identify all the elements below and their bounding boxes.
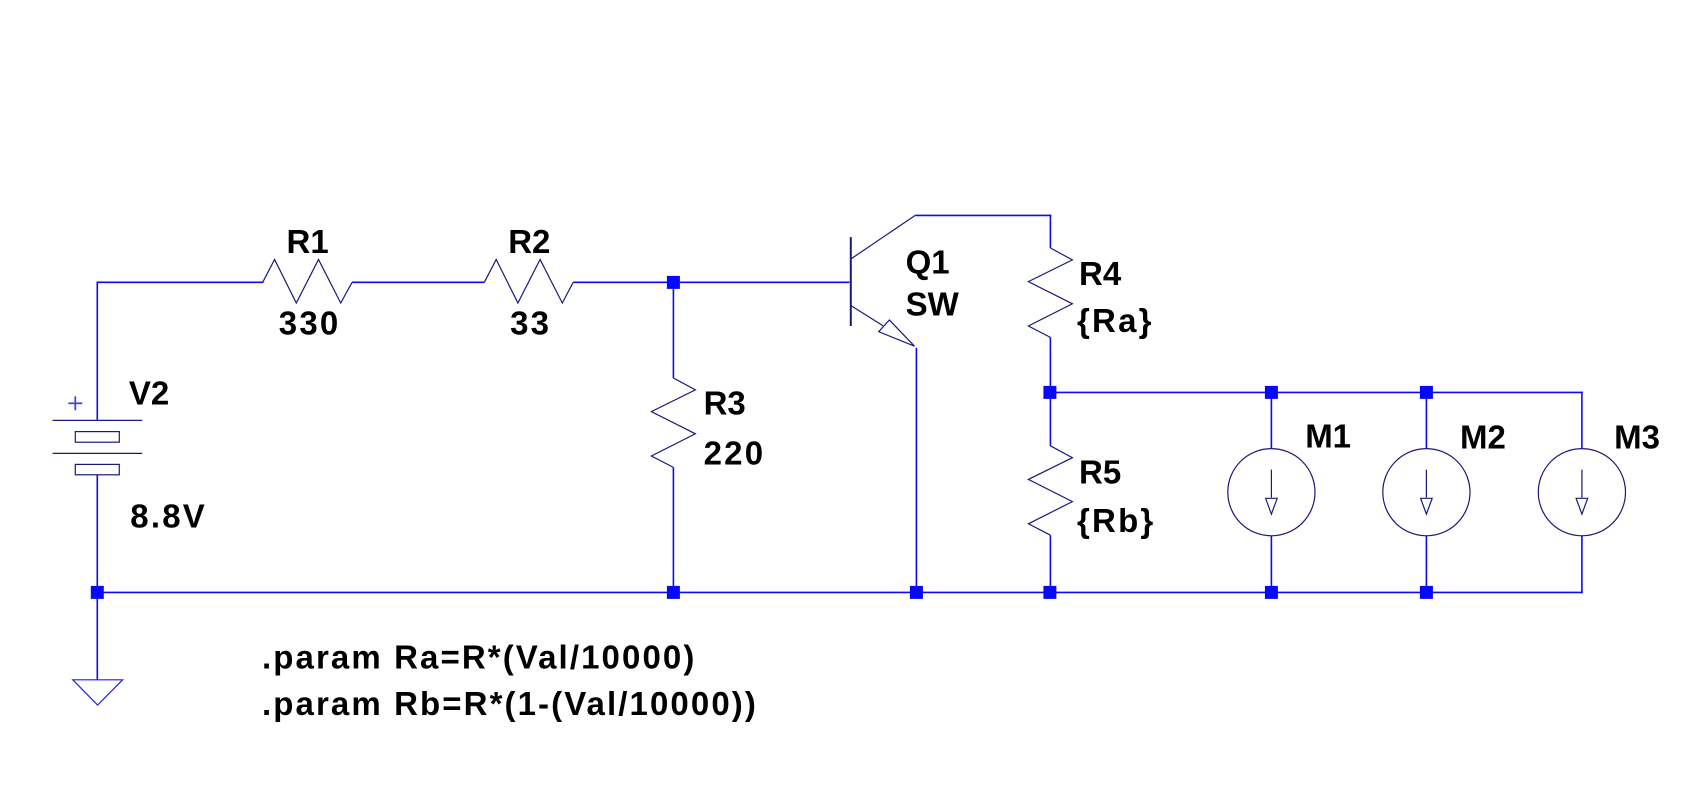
svg-text:R5: R5: [1079, 454, 1121, 491]
svg-text:M1: M1: [1305, 418, 1351, 455]
wire: [672, 282, 674, 378]
current source M2: [1383, 449, 1470, 536]
svg-text:{Rb}: {Rb}: [1077, 502, 1155, 539]
node (V2 ground junction): [91, 586, 104, 599]
wire: [1270, 535, 1272, 592]
svg-text:M2: M2: [1460, 419, 1506, 456]
node (M2 top): [1420, 386, 1433, 399]
node (emitter bottom): [910, 586, 923, 599]
svg-text:Q1: Q1: [906, 244, 950, 281]
svg-text:33: 33: [510, 305, 551, 342]
wire: [1049, 535, 1051, 592]
wire: [1425, 535, 1427, 592]
svg-text:V2: V2: [129, 374, 169, 411]
wire: [1049, 337, 1051, 392]
ground: [73, 680, 123, 705]
svg-text:8.8V: 8.8V: [130, 497, 207, 534]
wire: [97, 591, 1583, 593]
svg-text:.param Rb=R*(1-(Val/10000)): .param Rb=R*(1-(Val/10000)): [262, 685, 758, 722]
wire: [1050, 391, 1583, 393]
wire: [1581, 392, 1583, 449]
svg-text:R3: R3: [704, 384, 746, 421]
node (R5 bottom): [1043, 586, 1056, 599]
node (R4/R5 junction): [1043, 386, 1056, 399]
svg-text:R1: R1: [287, 223, 329, 260]
wire: [97, 281, 264, 283]
transistor Q1: [851, 215, 916, 346]
resistor R3: [651, 378, 695, 467]
svg-text:SW: SW: [906, 286, 960, 323]
node (M1 top): [1265, 386, 1278, 399]
svg-text:330: 330: [279, 305, 341, 342]
resistor R5: [1028, 446, 1072, 535]
resistor R4: [1028, 248, 1072, 337]
svg-text:.param Ra=R*(Val/10000): .param Ra=R*(Val/10000): [262, 639, 696, 676]
wire: [96, 475, 98, 680]
wire: [1581, 535, 1583, 593]
wire: [352, 281, 484, 283]
node (M2 bottom): [1420, 586, 1433, 599]
svg-text:{Ra}: {Ra}: [1077, 302, 1154, 339]
svg-text:R2: R2: [508, 223, 550, 260]
wire: [915, 348, 917, 593]
wire: [1270, 392, 1272, 448]
current source M3: [1538, 449, 1625, 536]
node (M1 bottom): [1265, 586, 1278, 599]
svg-text:R4: R4: [1079, 255, 1122, 292]
wire: [96, 282, 98, 420]
wire: [573, 281, 849, 283]
svg-text:220: 220: [704, 434, 766, 471]
wire: [916, 214, 1052, 216]
node A (R2/R3 junction): [667, 276, 680, 289]
plus sign of V2: [68, 396, 82, 410]
voltage source V2: [53, 420, 143, 474]
resistor R2: [484, 260, 573, 304]
wire: [1049, 392, 1051, 445]
wire: [1049, 215, 1051, 248]
current source M1: [1228, 449, 1315, 536]
node (R3 bottom): [667, 586, 680, 599]
svg-text:M3: M3: [1614, 419, 1660, 456]
wire: [1425, 392, 1427, 448]
wire: [672, 467, 674, 592]
resistor R1: [263, 260, 352, 304]
